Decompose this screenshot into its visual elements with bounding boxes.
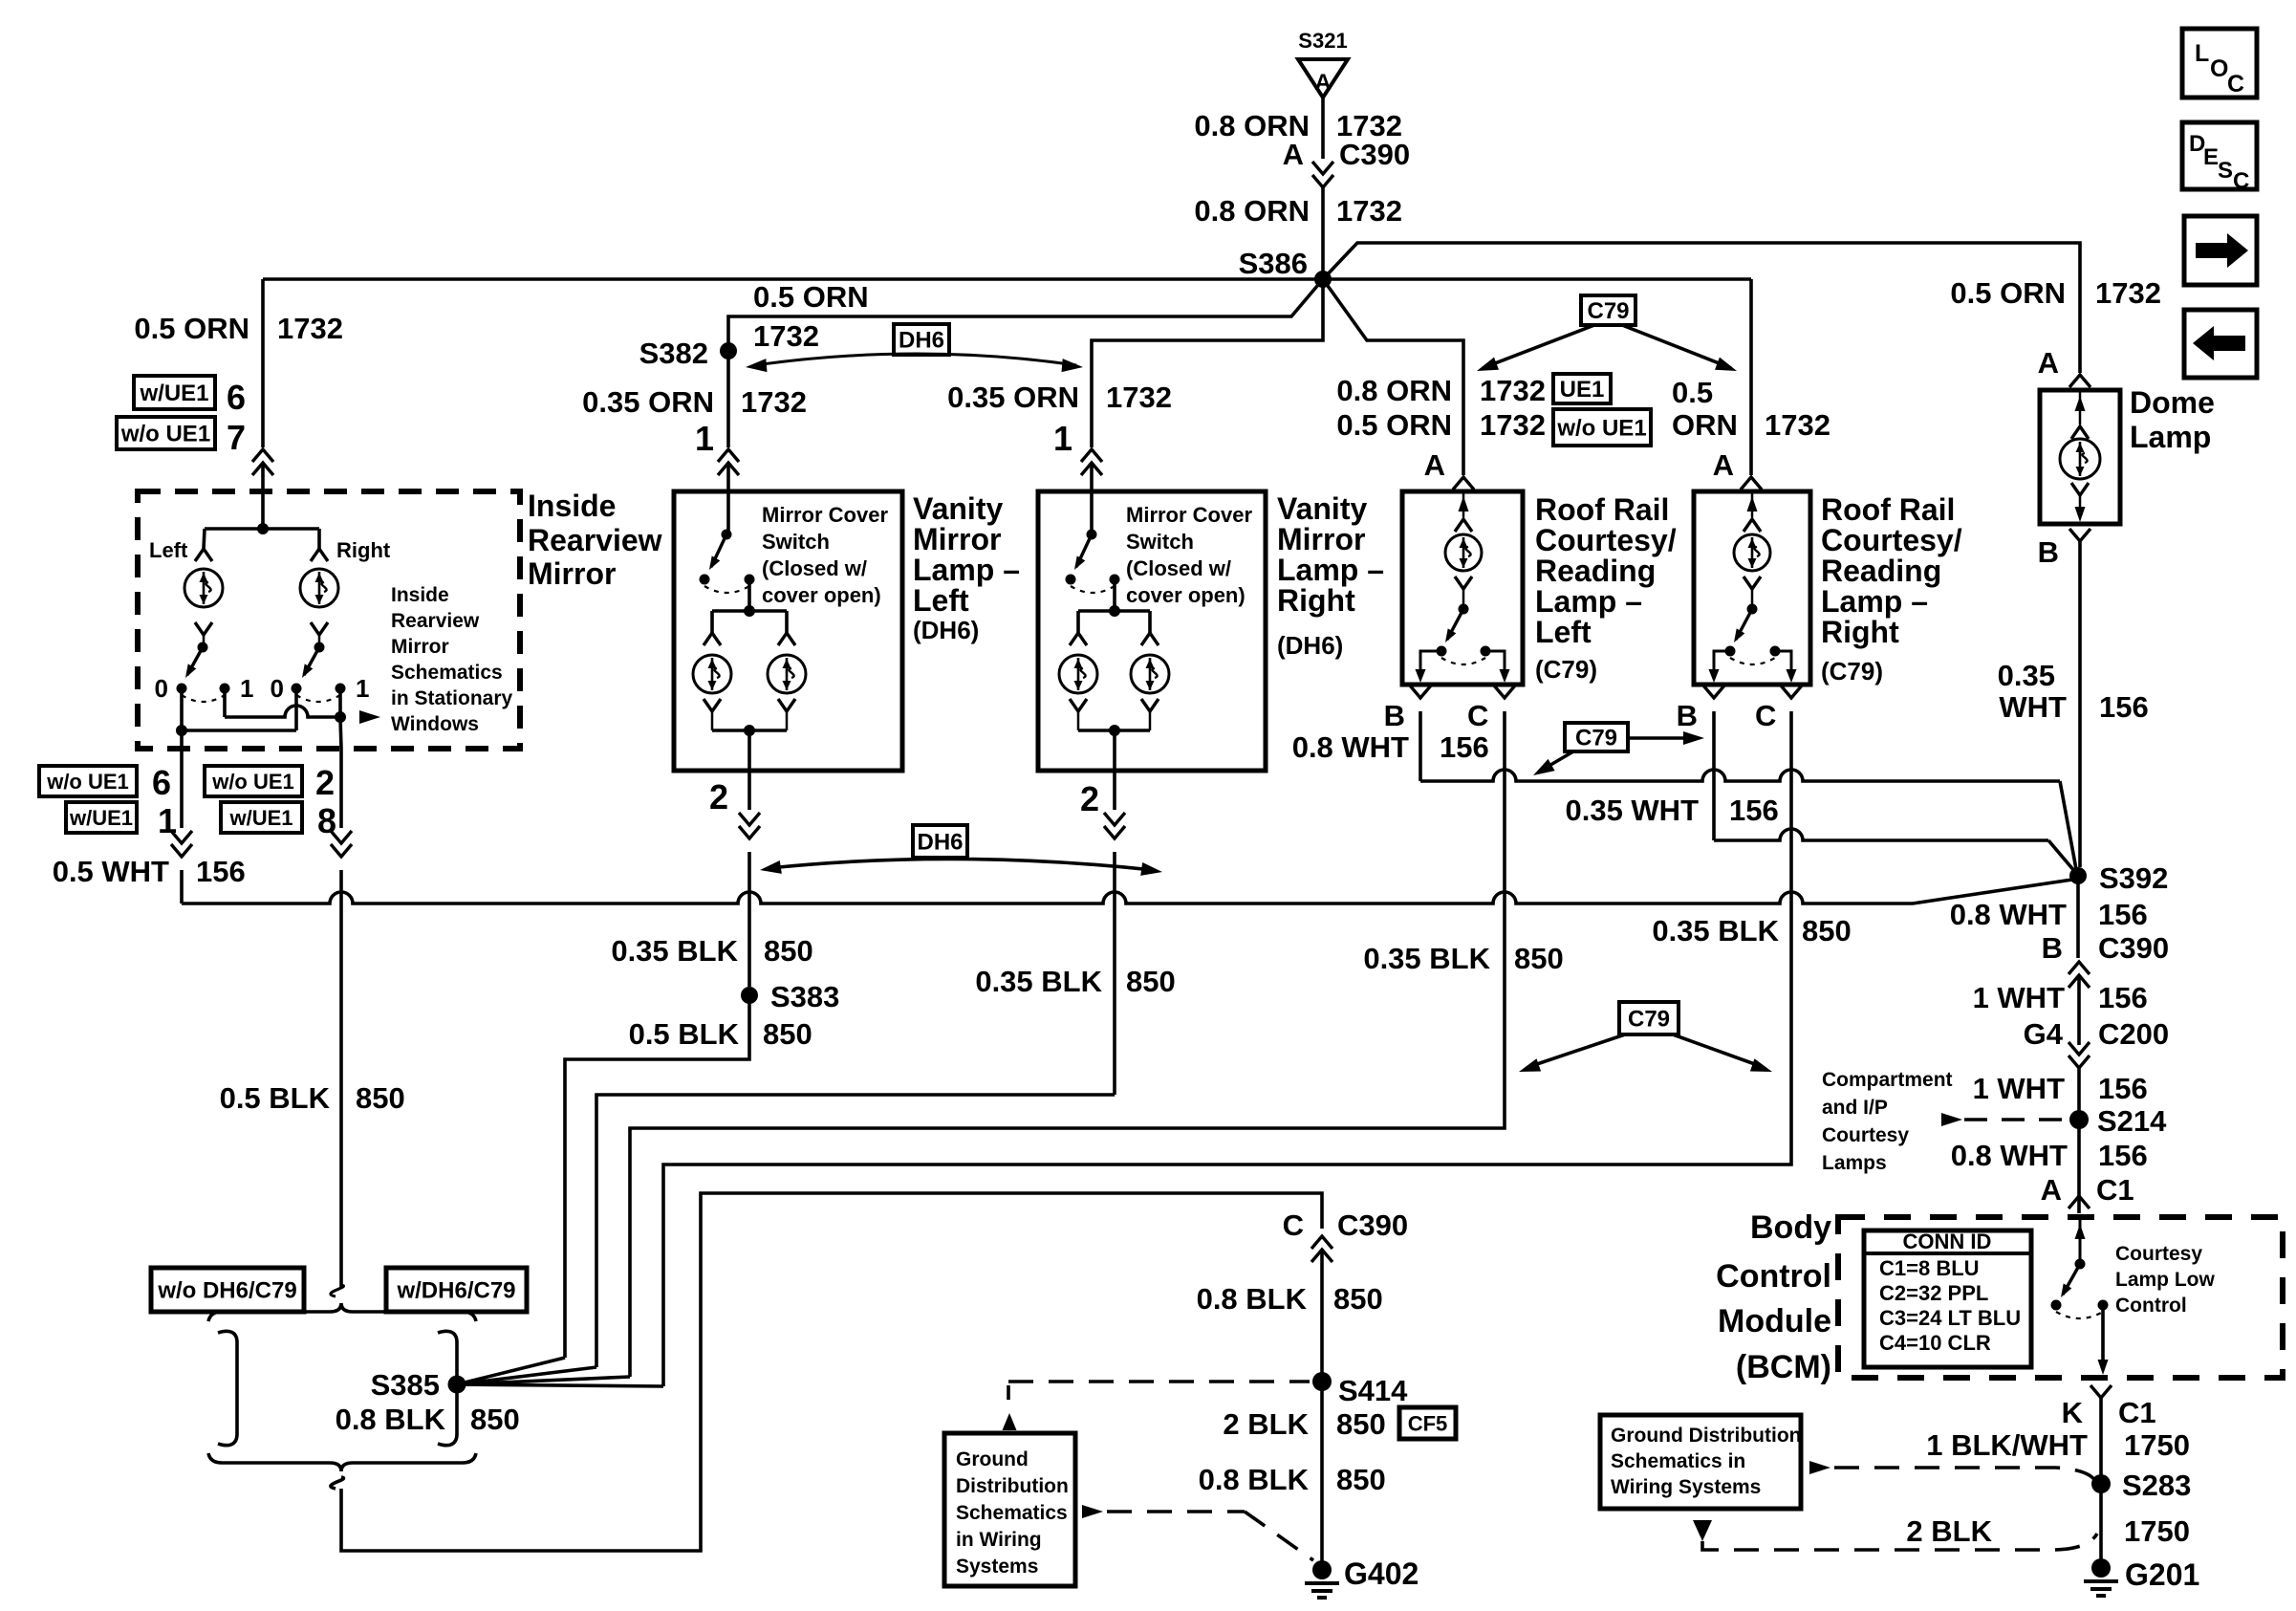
svg-text:CF5: CF5	[1408, 1411, 1448, 1435]
svg-text:Switch: Switch	[762, 530, 830, 554]
C79 option box middle	[1565, 723, 1628, 751]
svg-text:0.8 WHT: 0.8 WHT	[1950, 898, 2067, 931]
svg-text:O: O	[2210, 55, 2228, 82]
connector vanity mirror lamp left pin 1	[718, 449, 739, 462]
svg-text:6: 6	[227, 378, 246, 417]
svg-text:156: 156	[1440, 730, 1489, 764]
w/o UE1 box pin 6	[39, 766, 137, 796]
switch mirror cover right	[1087, 530, 1097, 540]
connector roof rail right pin C	[1781, 686, 1802, 698]
svg-text:Vanity: Vanity	[1277, 491, 1367, 526]
svg-text:A: A	[1424, 448, 1445, 482]
svg-text:and I/P: and I/P	[1822, 1097, 1888, 1119]
svg-text:0.35 BLK: 0.35 BLK	[1652, 914, 1779, 947]
svg-text:0.8 WHT: 0.8 WHT	[1292, 730, 1409, 764]
svg-text:1750: 1750	[2124, 1428, 2190, 1462]
mirror left lamp branch	[204, 529, 205, 549]
dashed link ground note to G402 wire	[1082, 1505, 1103, 1518]
connector vanity mirror lamp right pin 1	[1081, 449, 1102, 462]
nav box LOC	[2182, 29, 2257, 98]
note box ground distribution schematics left	[944, 1433, 1075, 1586]
wire roof rail right C to S385	[663, 711, 1791, 1386]
wire S386 to S382	[728, 279, 1323, 447]
svg-text:Left: Left	[1535, 615, 1592, 649]
svg-text:S382: S382	[639, 337, 708, 370]
svg-text:Lamp –: Lamp –	[913, 553, 1020, 587]
svg-text:A: A	[2041, 1173, 2062, 1207]
DH6 option box upper	[894, 324, 949, 355]
svg-text:C79: C79	[1628, 1007, 1670, 1033]
connector C390 pin B	[2069, 962, 2090, 974]
svg-text:Schematics: Schematics	[391, 662, 503, 684]
svg-text:w/UE1: w/UE1	[228, 806, 292, 830]
svg-text:0.5 ORN: 0.5 ORN	[1336, 408, 1452, 442]
svg-text:0: 0	[155, 674, 168, 703]
switch courtesy lamp low control	[2079, 1217, 2082, 1264]
wire S386 to roof rail left pin A	[1323, 279, 1463, 475]
C79 option box upper	[1581, 295, 1635, 325]
wire roof rail left C to S385	[630, 711, 1505, 1377]
junction mirror feed bus	[257, 523, 269, 534]
connector C200 pin G4	[2069, 1056, 2090, 1068]
svg-text:850: 850	[1336, 1463, 1386, 1496]
w/UE1 option box pin 6	[134, 376, 215, 409]
svg-text:156: 156	[2098, 1072, 2148, 1105]
svg-text:Module: Module	[1718, 1303, 1831, 1339]
svg-text:850: 850	[1126, 965, 1176, 998]
svg-text:1 WHT: 1 WHT	[1973, 1072, 2066, 1105]
wire roof rail left B to S392 (0.8 WHT 156)	[1419, 711, 1422, 781]
svg-text:0.8 BLK: 0.8 BLK	[1197, 1282, 1308, 1316]
svg-text:1732: 1732	[753, 319, 819, 353]
w/o UE1 box pin 2	[205, 766, 302, 796]
svg-text:DH6: DH6	[899, 328, 944, 354]
mirror right lamp branch	[317, 529, 321, 549]
svg-text:C1=8 BLU: C1=8 BLU	[1879, 1256, 1980, 1280]
component box body control module (dashed)	[1838, 1217, 2283, 1378]
w/o UE1 option box pin 7	[117, 417, 215, 449]
option bracket left	[218, 1331, 237, 1445]
svg-text:S414: S414	[1338, 1374, 1408, 1407]
svg-text:cover open): cover open)	[762, 583, 881, 607]
svg-text:Right: Right	[1821, 615, 1899, 649]
connector dome pin B	[2069, 529, 2090, 541]
svg-text:w/o DH6/C79: w/o DH6/C79	[157, 1278, 296, 1304]
svg-text:0.35 WHT: 0.35 WHT	[1565, 794, 1699, 827]
svg-text:C390: C390	[2098, 931, 2169, 965]
svg-text:Ground Distribution: Ground Distribution	[1611, 1425, 1801, 1447]
svg-text:w/DH6/C79: w/DH6/C79	[396, 1278, 515, 1304]
svg-text:C1: C1	[2118, 1396, 2156, 1429]
junction mirror output	[176, 725, 187, 736]
svg-text:B: B	[2038, 535, 2059, 569]
dashed link compartment courtesy lamps to S214	[1964, 1118, 2069, 1121]
svg-text:Dome: Dome	[2130, 385, 2215, 420]
svg-text:Reading: Reading	[1821, 554, 1941, 588]
wire mirror lamp bus	[205, 527, 319, 531]
svg-text:0.5 ORN: 0.5 ORN	[134, 312, 249, 345]
svg-text:0.35 BLK: 0.35 BLK	[611, 934, 738, 968]
connector vanity right pin 2	[1104, 826, 1125, 838]
wire C390-B to C200	[2077, 975, 2081, 1045]
svg-text:Roof Rail: Roof Rail	[1535, 492, 1669, 527]
svg-text:156: 156	[1729, 794, 1779, 827]
svg-text:7: 7	[227, 418, 246, 457]
svg-text:2 BLK: 2 BLK	[1223, 1407, 1309, 1441]
svg-text:S385: S385	[371, 1368, 440, 1402]
svg-text:C79: C79	[1575, 726, 1617, 751]
svg-text:1750: 1750	[2124, 1514, 2190, 1548]
svg-text:Control: Control	[2115, 1295, 2187, 1317]
svg-text:w/o UE1: w/o UE1	[211, 770, 294, 794]
wire S383 to S385	[565, 995, 749, 1358]
connector C390 pin C	[1311, 1236, 1332, 1249]
wire C200 to BCM	[2077, 1068, 2081, 1213]
svg-text:Mirror: Mirror	[1277, 522, 1365, 556]
svg-text:2: 2	[1080, 779, 1099, 818]
svg-text:156: 156	[2098, 1139, 2148, 1172]
connector roof rail left pin B	[1410, 686, 1431, 698]
svg-text:A: A	[1283, 138, 1304, 171]
switch roof rail right	[1747, 604, 1758, 615]
svg-text:0: 0	[271, 674, 284, 703]
svg-text:(Closed w/: (Closed w/	[1126, 556, 1231, 580]
nav box arrow left	[2184, 310, 2257, 378]
svg-text:0.5: 0.5	[1672, 376, 1713, 409]
svg-text:0.8 BLK: 0.8 BLK	[1199, 1463, 1310, 1496]
svg-text:Vanity: Vanity	[913, 491, 1003, 526]
svg-text:Courtesy/: Courtesy/	[1535, 523, 1677, 557]
wire mirror right output	[340, 717, 341, 749]
svg-text:Left: Left	[149, 538, 188, 562]
wire S386 to dome lamp A	[1323, 243, 2080, 373]
svg-text:Mirror: Mirror	[528, 556, 616, 591]
svg-text:Courtesy/: Courtesy/	[1821, 523, 1962, 557]
wire roof rail right C output	[1775, 651, 1791, 677]
lamp dome internals	[2079, 390, 2082, 425]
svg-text:C: C	[2233, 168, 2249, 194]
svg-text:0.35 BLK: 0.35 BLK	[1363, 942, 1490, 975]
svg-text:Ground: Ground	[956, 1448, 1029, 1470]
svg-text:G4: G4	[2024, 1017, 2064, 1051]
svg-text:Switch: Switch	[1126, 530, 1194, 554]
lamp inside rearview mirror left	[184, 569, 223, 607]
svg-text:156: 156	[2098, 981, 2148, 1014]
svg-text:850: 850	[470, 1403, 520, 1436]
wire vanity right pin2 to S385	[596, 1095, 1115, 1367]
wire S385 fan joins	[457, 1358, 565, 1384]
svg-text:0.8 ORN: 0.8 ORN	[1194, 194, 1310, 228]
connector roof rail left pin C	[1494, 686, 1515, 698]
lamp inside rearview mirror right	[300, 569, 338, 607]
svg-text:cover open): cover open)	[1126, 583, 1245, 607]
svg-text:Distribution: Distribution	[956, 1475, 1069, 1497]
svg-text:w/o UE1: w/o UE1	[120, 422, 210, 447]
svg-text:1732: 1732	[277, 312, 343, 345]
svg-text:2: 2	[709, 777, 728, 816]
wire vanity right lamp bus	[1113, 579, 1116, 611]
svg-text:C4=10 CLR: C4=10 CLR	[1879, 1331, 1991, 1355]
svg-text:G402: G402	[1344, 1557, 1419, 1591]
svg-text:WHT: WHT	[1999, 690, 2067, 724]
svg-text:1: 1	[1053, 419, 1072, 458]
svg-text:L: L	[2195, 40, 2209, 67]
wire roof rail left B output	[1420, 651, 1441, 677]
svg-text:C3=24 LT BLU: C3=24 LT BLU	[1879, 1306, 2021, 1330]
wire main to inside rearview mirror	[261, 279, 265, 447]
svg-text:0.8 BLK: 0.8 BLK	[336, 1403, 446, 1436]
svg-text:(DH6): (DH6)	[1277, 631, 1343, 660]
splice S386	[1314, 271, 1332, 288]
svg-text:2 BLK: 2 BLK	[1906, 1514, 1992, 1548]
wire S392 to C390-B	[2076, 876, 2080, 958]
svg-text:1: 1	[240, 674, 253, 703]
svg-text:w/o UE1: w/o UE1	[1556, 416, 1646, 442]
svg-text:C390: C390	[1339, 138, 1410, 171]
svg-text:0.5 ORN: 0.5 ORN	[753, 280, 869, 314]
component box vanity mirror lamp right	[1038, 491, 1266, 771]
wire main 1732 horizontal	[263, 277, 1751, 281]
dashed link S414 to ground distribution note	[1008, 1380, 1310, 1383]
svg-text:A: A	[1314, 70, 1331, 96]
svg-text:156: 156	[2099, 690, 2149, 724]
wire vanity left lamp bus	[747, 579, 751, 611]
wire vanity right pin 2	[1113, 771, 1116, 810]
wire roof rail right B output	[1714, 651, 1730, 677]
splice S414	[1312, 1372, 1332, 1391]
wire main to roof rail right pin A	[1749, 279, 1753, 475]
svg-text:850: 850	[1336, 1407, 1386, 1441]
component box vanity mirror lamp left	[674, 491, 902, 771]
svg-text:1: 1	[356, 674, 369, 703]
svg-text:E: E	[2203, 144, 2219, 170]
svg-text:Left: Left	[913, 583, 969, 618]
svg-text:Lamp: Lamp	[2130, 420, 2211, 454]
C79 option arrow middle right	[1628, 736, 1693, 740]
svg-text:S392: S392	[2099, 861, 2168, 895]
component box dome lamp	[2040, 390, 2120, 524]
lamp vanity left bulb 2	[785, 611, 789, 633]
svg-text:Courtesy: Courtesy	[1822, 1124, 1909, 1146]
svg-text:(BCM): (BCM)	[1736, 1349, 1831, 1385]
svg-text:in Wiring: in Wiring	[956, 1529, 1042, 1551]
wire K C1 to G201	[2099, 1398, 2103, 1562]
svg-text:Body: Body	[1750, 1209, 1831, 1246]
svg-text:Mirror Cover: Mirror Cover	[1126, 503, 1252, 527]
svg-text:1732: 1732	[1480, 408, 1546, 442]
svg-text:A: A	[2038, 346, 2059, 380]
svg-text:0.35: 0.35	[1998, 659, 2055, 692]
svg-text:0.8 WHT: 0.8 WHT	[1951, 1139, 2068, 1172]
svg-text:S214: S214	[2097, 1104, 2167, 1138]
power triangle S321	[1298, 59, 1348, 98]
connector mirror pin 2/8	[331, 844, 352, 857]
svg-text:0.8 ORN: 0.8 ORN	[1336, 374, 1452, 407]
component box roof rail courtesy reading lamp left	[1402, 491, 1523, 685]
dashed link ground note down to G201 wire	[1693, 1520, 1712, 1541]
option brace bottom	[208, 1453, 476, 1471]
w/UE1 box pin 8	[221, 802, 302, 833]
connector roof rail right pin B	[1703, 686, 1724, 698]
C79 option arrow middle left	[1541, 751, 1573, 771]
svg-text:B: B	[1384, 699, 1405, 732]
svg-text:C79: C79	[1587, 298, 1629, 324]
svg-text:in Stationary: in Stationary	[391, 687, 513, 709]
CF5 option box	[1399, 1407, 1456, 1439]
svg-text:Lamp –: Lamp –	[1535, 584, 1642, 619]
svg-text:1: 1	[158, 801, 177, 840]
svg-text:C390: C390	[1337, 1208, 1408, 1242]
svg-text:1732: 1732	[1336, 194, 1402, 228]
svg-text:156: 156	[196, 855, 246, 888]
w/DH6/C79 option box	[386, 1268, 527, 1312]
svg-text:C: C	[1283, 1208, 1304, 1242]
svg-text:0.35 ORN: 0.35 ORN	[582, 385, 714, 419]
svg-text:Rearview: Rearview	[391, 610, 480, 632]
svg-text:1 WHT: 1 WHT	[1973, 981, 2066, 1014]
connector C390 pin A	[1312, 175, 1333, 187]
switch mirror cover left	[722, 530, 732, 540]
svg-text:156: 156	[2098, 898, 2148, 931]
svg-text:Courtesy: Courtesy	[2115, 1243, 2202, 1265]
svg-text:Systems: Systems	[956, 1556, 1038, 1578]
splice S382	[720, 342, 737, 359]
lamp roof rail right internals	[1751, 491, 1754, 517]
svg-text:ORN: ORN	[1672, 408, 1738, 442]
svg-text:Inside: Inside	[528, 489, 616, 523]
splice S392	[2069, 867, 2087, 884]
svg-text:DH6: DH6	[917, 830, 963, 856]
svg-text:Rearview: Rearview	[528, 523, 662, 557]
wire brace bottom squiggle to bypass path	[331, 1477, 344, 1489]
svg-text:K: K	[2062, 1396, 2084, 1429]
svg-text:850: 850	[764, 934, 813, 968]
svg-text:Windows: Windows	[391, 713, 479, 735]
svg-text:1732: 1732	[741, 385, 807, 419]
wire S386 to vanity mirror right pin 1	[1092, 279, 1323, 447]
connector BCM C1 pin A	[2069, 1196, 2090, 1208]
svg-text:850: 850	[1514, 942, 1564, 975]
svg-text:Mirror: Mirror	[913, 522, 1001, 556]
svg-text:850: 850	[1333, 1282, 1383, 1316]
wire S321 to C390-A	[1321, 98, 1325, 159]
svg-text:C: C	[2227, 71, 2244, 98]
ground G201	[2091, 1558, 2111, 1578]
splice S383	[741, 987, 758, 1004]
component box roof rail courtesy reading lamp right	[1694, 491, 1810, 685]
lamp vanity left bulb 1	[710, 611, 714, 633]
wire dome B to S392	[2078, 541, 2082, 867]
svg-text:Mirror: Mirror	[391, 636, 449, 658]
svg-text:A: A	[1713, 448, 1734, 482]
svg-text:(DH6): (DH6)	[913, 616, 979, 644]
svg-text:Lamp Low: Lamp Low	[2115, 1269, 2215, 1291]
svg-text:S: S	[2218, 158, 2233, 184]
svg-text:0.35 ORN: 0.35 ORN	[947, 381, 1079, 414]
svg-text:w/UE1: w/UE1	[69, 806, 133, 830]
svg-text:Lamp –: Lamp –	[1277, 553, 1384, 587]
svg-text:S383: S383	[770, 980, 839, 1013]
svg-text:Roof Rail: Roof Rail	[1821, 492, 1955, 527]
svg-text:850: 850	[763, 1017, 812, 1051]
wire long 0.5 WHT 156 line to S392	[182, 880, 2072, 903]
option brace top	[208, 1303, 476, 1321]
svg-text:0.5 BLK: 0.5 BLK	[220, 1081, 331, 1115]
svg-text:Mirror Cover: Mirror Cover	[762, 503, 888, 527]
svg-text:C: C	[1755, 699, 1776, 732]
svg-text:0.5 BLK: 0.5 BLK	[629, 1017, 740, 1051]
svg-text:B: B	[2042, 931, 2063, 965]
w/o UE1 option box	[1553, 409, 1651, 446]
wire vanity left pin 2	[747, 771, 751, 810]
splice S385	[448, 1376, 466, 1394]
svg-text:6: 6	[152, 763, 171, 802]
C79 option arrow lower left	[1528, 1034, 1625, 1067]
wire C390 to S386	[1321, 187, 1325, 279]
w/UE1 box pin 1	[66, 802, 137, 833]
svg-text:Reading: Reading	[1535, 554, 1656, 588]
svg-text:1: 1	[695, 419, 714, 458]
svg-text:B: B	[1677, 699, 1698, 732]
component box inside rearview mirror (dashed)	[138, 491, 520, 749]
connector inside rearview mirror pin	[252, 449, 273, 462]
svg-text:0.5 ORN: 0.5 ORN	[1950, 276, 2066, 310]
svg-text:S386: S386	[1239, 247, 1308, 280]
wire w/o-option bypass to C390-C	[341, 1193, 1322, 1551]
wire BCM output to K pin	[2101, 1305, 2105, 1361]
svg-text:(Closed w/: (Closed w/	[762, 556, 867, 580]
svg-text:Right: Right	[1277, 583, 1355, 618]
svg-text:UE1: UE1	[1560, 377, 1605, 403]
svg-text:Control: Control	[1716, 1258, 1831, 1295]
UE1 option box	[1553, 374, 1611, 403]
ground G402	[1312, 1560, 1332, 1579]
svg-text:1 BLK/WHT: 1 BLK/WHT	[1926, 1428, 2088, 1462]
wire roof rail right B to S392 (0.35 WHT 156)	[1712, 711, 1716, 840]
svg-text:C200: C200	[2098, 1017, 2169, 1051]
wire mirror contacts 0 to pin	[180, 688, 184, 730]
svg-text:G201: G201	[2125, 1557, 2199, 1592]
wire mirror left switch outputs	[225, 706, 340, 717]
svg-text:C: C	[1467, 699, 1488, 732]
DH6 option box lower	[913, 825, 967, 858]
lamp vanity right bulb 2	[1148, 611, 1152, 633]
connector vanity left pin 2	[739, 826, 760, 838]
svg-text:1732: 1732	[1106, 381, 1172, 414]
C79 option arrow upper	[1483, 325, 1594, 368]
wire vanity right bottom bus	[1078, 729, 1150, 732]
svg-text:C1: C1	[2096, 1173, 2134, 1207]
lamp roof rail left internals	[1462, 491, 1465, 517]
svg-text:Inside: Inside	[391, 584, 449, 606]
svg-text:Lamp –: Lamp –	[1821, 584, 1928, 619]
svg-text:w/UE1: w/UE1	[139, 381, 208, 406]
switch mirror right dimmer	[314, 642, 325, 653]
svg-text:Compartment: Compartment	[1822, 1069, 1953, 1091]
svg-text:2: 2	[315, 763, 335, 802]
connector mirror pin 6/1	[171, 844, 192, 857]
wire mirror pin BLK output	[339, 749, 343, 828]
switch roof rail left	[1459, 604, 1469, 615]
C79 option box lower	[1619, 1002, 1679, 1034]
wire C390-C to G402	[1320, 1250, 1324, 1562]
note box ground distribution schematics right	[1600, 1415, 1801, 1509]
svg-text:Schematics: Schematics	[956, 1502, 1068, 1524]
svg-text:Wiring Systems: Wiring Systems	[1611, 1476, 1761, 1498]
svg-text:1732: 1732	[1765, 408, 1830, 442]
svg-text:(C79): (C79)	[1821, 657, 1883, 686]
w/o DH6/C79 option box	[151, 1268, 304, 1312]
